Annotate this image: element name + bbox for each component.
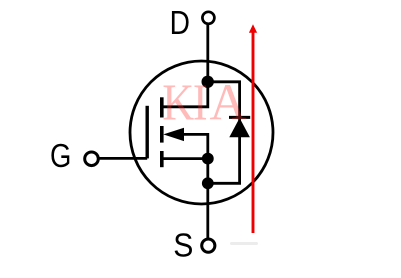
svg-text:K: K xyxy=(162,74,194,131)
svg-text:G: G xyxy=(50,137,71,174)
svg-text:I: I xyxy=(193,74,208,131)
svg-text:A: A xyxy=(210,74,247,131)
svg-text:S: S xyxy=(173,226,193,264)
svg-text:D: D xyxy=(170,4,190,42)
